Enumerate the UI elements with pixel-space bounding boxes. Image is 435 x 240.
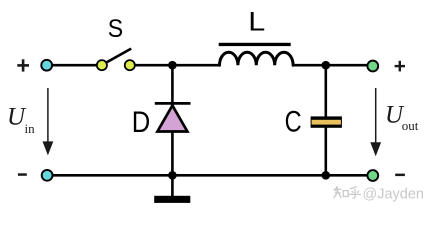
svg-text:out: out	[402, 118, 419, 133]
diode D triangle	[157, 105, 187, 131]
terminal input + (cyan)	[41, 60, 52, 71]
wire diode branch	[171, 65, 174, 175]
wire top rail right segment	[293, 64, 368, 67]
svg-text:@Jayden: @Jayden	[363, 187, 424, 203]
inductor L windings	[220, 52, 294, 65]
plus sign input	[17, 64, 29, 67]
svg-text:D: D	[132, 106, 151, 139]
arrow U_in	[47, 88, 49, 143]
switch S contact left	[97, 60, 107, 70]
wire bottom rail	[47, 174, 368, 177]
node junction bottom-right (capacitor bottom)	[322, 171, 331, 180]
terminal output + (green)	[367, 61, 378, 72]
wire top rail middle segment	[130, 64, 220, 67]
watermark 知 (drawn strokes)	[333, 186, 348, 198]
node junction top-left (diode top)	[168, 61, 177, 70]
switch S blade	[103, 49, 132, 65]
capacitor C plates	[311, 116, 342, 127]
terminal output - (green)	[367, 170, 378, 181]
node junction bottom-left (diode bottom)	[168, 171, 177, 180]
inductor L core bar	[219, 43, 291, 46]
svg-text:in: in	[25, 121, 36, 136]
svg-text:S: S	[108, 15, 123, 43]
ground bar	[154, 196, 190, 203]
ground stem	[171, 175, 174, 196]
watermark 乎 (drawn strokes)	[349, 186, 361, 198]
minus sign output	[395, 174, 405, 177]
switch S contact right	[125, 60, 135, 70]
terminal input - (cyan)	[42, 170, 53, 181]
wire capacitor branch lower	[324, 127, 327, 176]
minus sign input	[18, 173, 27, 176]
arrow U_out	[375, 88, 377, 143]
svg-text:L: L	[248, 7, 265, 37]
plus sign output	[395, 65, 405, 67]
svg-text:C: C	[285, 105, 302, 138]
node junction top-right (capacitor top)	[322, 61, 331, 70]
wire capacitor branch upper	[324, 65, 327, 118]
diode D cathode bar	[155, 102, 191, 105]
wire top rail left segment	[47, 64, 102, 67]
